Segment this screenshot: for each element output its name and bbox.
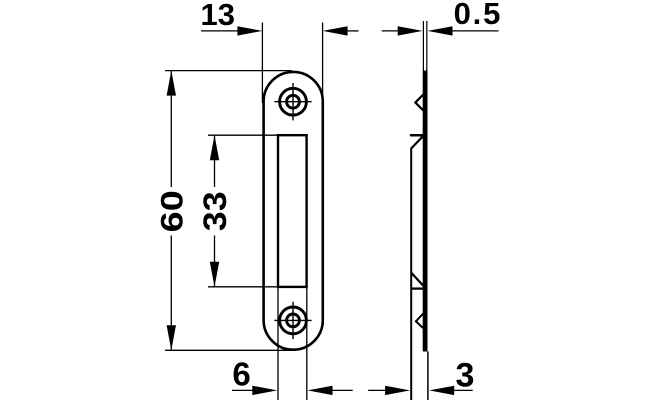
side view: flange top diagonal <box>411 136 423 148</box>
dim 13: right arrowhead <box>323 26 348 35</box>
side view: right extension line (for dim 3) <box>427 352 429 400</box>
screw hole top: inner circle <box>287 95 300 108</box>
dim 60: top extension line <box>165 70 292 72</box>
dim 3: right arrowhead <box>429 386 454 395</box>
dim 6: left arrowhead <box>252 386 277 395</box>
dim 13: left leader <box>201 30 240 32</box>
side view: sheet edge line right (0.5 extension) <box>426 21 428 71</box>
screw hole bottom: outer circle <box>280 307 307 334</box>
svg-text:6: 6 <box>232 355 250 392</box>
side view: barb 2 diagonal <box>411 273 423 286</box>
dim 60: dimension line upper segment <box>170 71 172 187</box>
dim 13: right extension line <box>322 23 324 104</box>
svg-text:33: 33 <box>197 191 233 231</box>
side view: barb 2 tick <box>411 287 424 289</box>
extension line from slot left edge down (for dim 6) <box>277 288 279 400</box>
screw hole bottom: crosshair horizontal <box>274 319 311 321</box>
screw hole bottom: crosshair vertical <box>292 302 294 339</box>
dim 60: bottom arrowhead <box>167 325 176 350</box>
side view: flange top tick <box>411 134 423 137</box>
dim 6: right arrowhead <box>308 386 333 395</box>
dim 13: left extension line <box>261 23 263 104</box>
dim 3: right leader <box>454 389 473 391</box>
dim 3: left arrowhead <box>385 386 410 395</box>
dim 33: bottom arrowhead <box>210 262 219 287</box>
dim 0.5: left arrowhead <box>398 26 423 35</box>
dim 13: left arrowhead <box>237 26 262 35</box>
svg-text:13: 13 <box>200 0 234 32</box>
svg-text:0.5: 0.5 <box>454 0 503 31</box>
dim 33: dimension line upper segment <box>214 135 216 187</box>
dim 0.5: left leader <box>382 30 398 32</box>
screw hole top: crosshair vertical <box>292 83 294 120</box>
dim 6: right leader <box>333 389 353 391</box>
dim 33: bottom extension line <box>208 286 277 288</box>
svg-text:60: 60 <box>155 190 189 232</box>
dim 33: dimension line lower segment <box>214 236 216 287</box>
side view: main plate bar <box>423 71 428 352</box>
dim 33: top extension line <box>208 134 277 136</box>
dim 13: right leader <box>348 30 359 32</box>
side view: barb 1 <box>415 95 423 111</box>
dim 60: bottom extension line <box>165 349 291 351</box>
dim 33: top arrowhead <box>210 135 219 160</box>
extension line from slot right edge down (for dim 6) <box>306 288 308 400</box>
side view: flange left line <box>410 148 412 400</box>
screw hole top: crosshair horizontal <box>274 101 311 103</box>
side view: barb 3 <box>416 314 423 329</box>
dim 3: left leader <box>368 389 386 391</box>
screw hole bottom: inner circle <box>287 314 300 327</box>
dim 0.5: right leader <box>453 30 499 32</box>
svg-text:3: 3 <box>455 356 474 394</box>
dim 60: top arrowhead <box>167 71 176 96</box>
dim 60: dimension line lower segment <box>170 236 172 351</box>
dim 6: left leader <box>232 389 253 391</box>
slot (latch opening) <box>278 135 307 287</box>
screw hole top: outer circle <box>280 88 307 115</box>
dim 0.5: right arrowhead <box>428 26 453 35</box>
side view: sheet edge line left (0.5 extension) <box>422 21 424 71</box>
front view: strike plate outline <box>264 72 323 350</box>
